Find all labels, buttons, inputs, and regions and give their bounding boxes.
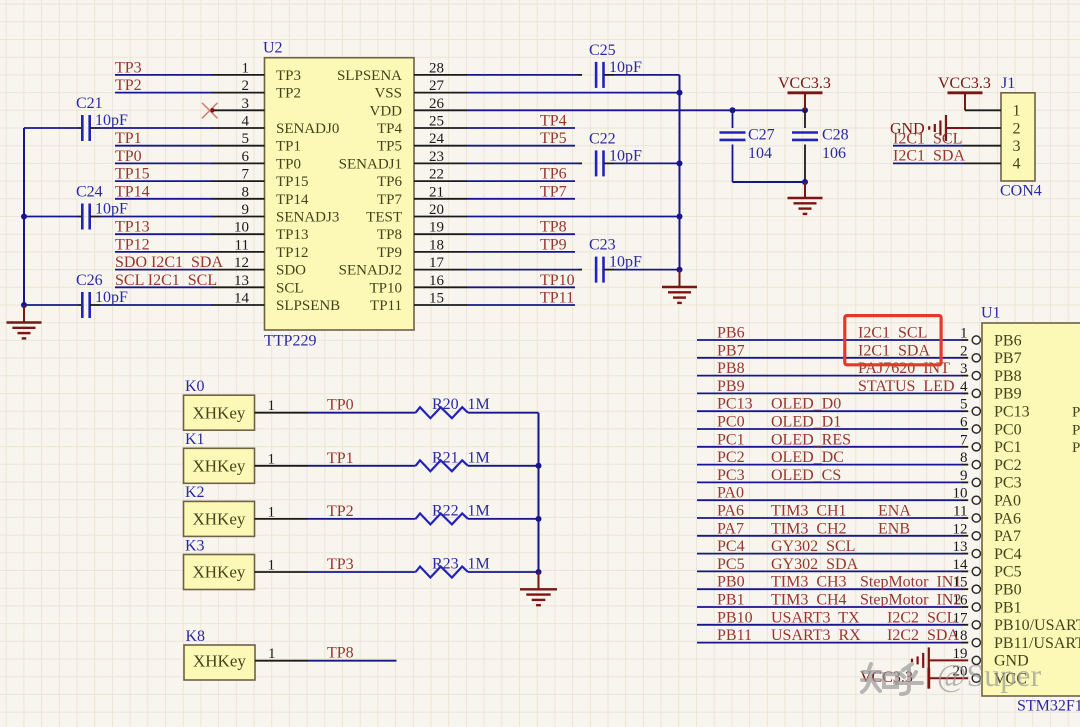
svg-text:P: P	[1072, 405, 1080, 421]
U2 pin 24 (right)	[414, 145, 467, 147]
wire net TP1	[308, 465, 416, 467]
svg-text:StepMotor IN2: StepMotor IN2	[860, 592, 961, 609]
wire net TP0	[308, 412, 416, 414]
resistor R23 1M	[416, 567, 468, 578]
svg-text:TP11: TP11	[370, 298, 402, 314]
svg-text:PA6: PA6	[717, 503, 744, 520]
svg-text:OLED_D1: OLED_D1	[771, 414, 841, 431]
svg-text:TP8: TP8	[540, 219, 567, 236]
K3 pin 1	[255, 571, 308, 573]
svg-text:1: 1	[268, 398, 276, 414]
svg-text:1M: 1M	[468, 502, 490, 519]
U2 pin 18 (right)	[414, 251, 467, 253]
capacitor C27 104	[732, 110, 734, 128]
svg-text:PC5: PC5	[994, 564, 1022, 581]
svg-text:25: 25	[429, 114, 444, 130]
svg-text:PC13: PC13	[717, 396, 753, 413]
svg-text:10: 10	[953, 486, 968, 502]
U2 pin 2 (left)	[212, 92, 265, 94]
svg-text:10pF: 10pF	[609, 59, 642, 76]
svg-text:PC4: PC4	[717, 538, 745, 555]
K1 pin 1	[255, 465, 308, 467]
U1 pin 2	[697, 357, 962, 359]
svg-text:TP8: TP8	[377, 227, 402, 243]
svg-text:P: P	[1072, 440, 1080, 456]
wire right vertical ground line	[679, 75, 681, 270]
svg-text:STM32F103C8: STM32F103C8	[1017, 697, 1080, 714]
svg-text:TIM3 CH2: TIM3 CH2	[771, 520, 847, 537]
svg-text:C25: C25	[589, 42, 616, 59]
resistor R22 1M	[416, 513, 468, 524]
svg-text:4: 4	[242, 114, 250, 130]
svg-text:19: 19	[429, 220, 444, 236]
svg-text:SCL: SCL	[276, 280, 304, 296]
svg-text:SENADJ3: SENADJ3	[276, 210, 339, 226]
U2 pin 3 (left)	[212, 109, 265, 111]
svg-text:PB1: PB1	[994, 599, 1022, 616]
wire VSS (pin27) to ground line	[467, 92, 680, 94]
wire net TP11 (right)	[467, 304, 575, 306]
svg-text:TP0: TP0	[115, 148, 142, 165]
svg-text:PB0: PB0	[717, 574, 745, 591]
U2 pin 13 (left)	[212, 286, 265, 288]
wire left ground bus	[23, 128, 25, 305]
svg-text:TP1: TP1	[115, 130, 142, 147]
capacitor C26 10pF	[24, 304, 78, 306]
capacitor C24 10pF	[24, 216, 78, 218]
wire VDD rail (pin26)	[467, 109, 805, 111]
wire resistor to bus	[468, 571, 539, 573]
svg-text:TIM3 CH4: TIM3 CH4	[771, 592, 847, 609]
svg-text:TP13: TP13	[115, 219, 150, 236]
U2 pin 25 (right)	[414, 127, 467, 129]
svg-text:TP3: TP3	[276, 68, 301, 84]
svg-text:OLED_RES: OLED_RES	[771, 431, 851, 448]
svg-text:10pF: 10pF	[95, 201, 128, 218]
svg-text:1M: 1M	[468, 396, 490, 413]
svg-text:TP3: TP3	[327, 556, 354, 573]
svg-text:PC1: PC1	[717, 431, 745, 448]
svg-text:I2C1 SDA: I2C1 SDA	[858, 342, 930, 359]
power GND (J1 pin2)	[970, 127, 1001, 129]
svg-text:PA7: PA7	[994, 528, 1021, 545]
capacitor C25 10pF	[467, 74, 578, 76]
wire net TP7 (right)	[467, 198, 575, 200]
svg-text:TTP229: TTP229	[264, 333, 316, 350]
svg-text:SDO: SDO	[276, 263, 306, 279]
svg-text:VSS: VSS	[374, 86, 402, 102]
wire net TP15 (U2 pin 7)	[115, 180, 213, 182]
svg-text:5: 5	[242, 131, 250, 147]
U2 pin 12 (left)	[212, 269, 265, 271]
svg-text:TP2: TP2	[115, 77, 142, 94]
ground (decoupling)	[804, 182, 806, 198]
K2 pin 1	[255, 518, 308, 520]
svg-text:TIM3 CH1: TIM3 CH1	[771, 503, 847, 520]
svg-text:PC0: PC0	[994, 421, 1022, 438]
svg-text:I2C2 SCL: I2C2 SCL	[887, 609, 956, 626]
svg-text:10pF: 10pF	[95, 112, 128, 129]
wire net TP0 (U2 pin 6)	[115, 162, 213, 164]
svg-text:PA0: PA0	[994, 493, 1021, 510]
svg-text:TP9: TP9	[540, 236, 567, 253]
svg-text:12: 12	[953, 521, 968, 537]
U2 pin 1 (left)	[212, 74, 265, 76]
svg-text:TP1: TP1	[276, 139, 301, 155]
svg-text:U1: U1	[981, 305, 1001, 322]
svg-text:TP12: TP12	[276, 245, 309, 261]
svg-text:2: 2	[242, 78, 250, 94]
svg-text:28: 28	[429, 60, 444, 76]
svg-text:27: 27	[429, 78, 445, 94]
no-ERC cross on pin 3	[202, 103, 218, 119]
U2 pin 23 (right)	[414, 162, 467, 164]
svg-text:XHKey: XHKey	[193, 651, 246, 670]
svg-text:R22: R22	[432, 502, 459, 519]
U2 pin 7 (left)	[212, 180, 265, 182]
svg-text:11: 11	[235, 237, 249, 253]
power VCC3.3 (U1 pin20)	[929, 677, 968, 679]
U2 pin 21 (right)	[414, 198, 467, 200]
watermark zhihu logo glyphs	[862, 664, 922, 694]
svg-text:GY302 SDA: GY302 SDA	[771, 556, 859, 573]
U2 pin 16 (right)	[414, 286, 467, 288]
wire net TP8	[308, 660, 397, 662]
svg-text:3: 3	[242, 96, 250, 112]
U2 pin 15 (right)	[414, 304, 467, 306]
svg-text:26: 26	[429, 96, 445, 112]
wire net TP12 (U2 pin 11)	[115, 251, 213, 253]
U2 pin 4 (left)	[212, 127, 265, 129]
svg-text:TP0: TP0	[327, 397, 354, 414]
svg-text:PA0: PA0	[717, 485, 744, 502]
svg-text:I2C2 SDA: I2C2 SDA	[887, 627, 959, 644]
K0 pin 1	[255, 412, 308, 414]
junction at C26	[21, 302, 27, 308]
svg-text:PB6: PB6	[717, 325, 745, 342]
U2 pin 5 (left)	[212, 145, 265, 147]
capacitor C23 10pF	[467, 269, 578, 271]
U2 pin 26 (right)	[414, 109, 467, 111]
svg-text:C22: C22	[589, 130, 616, 147]
svg-text:OLED_DC: OLED_DC	[771, 449, 844, 466]
wire TP2 net (pin2)	[115, 92, 213, 94]
svg-text:PA6: PA6	[994, 510, 1021, 527]
wire resistor to bus	[468, 465, 539, 467]
svg-text:PB9: PB9	[717, 378, 745, 395]
U1 pin 16	[697, 606, 962, 608]
svg-text:TP2: TP2	[276, 86, 301, 102]
svg-text:14: 14	[234, 291, 250, 307]
svg-text:SCL I2C1 SCL: SCL I2C1 SCL	[115, 272, 217, 289]
svg-text:XHKey: XHKey	[193, 403, 246, 422]
svg-text:1: 1	[268, 558, 276, 574]
svg-text:StepMotor IN1: StepMotor IN1	[860, 574, 961, 591]
svg-text:SENADJ0: SENADJ0	[276, 121, 339, 137]
svg-text:TP13: TP13	[276, 227, 309, 243]
svg-text:13: 13	[953, 539, 968, 555]
svg-text:VCC3.3: VCC3.3	[938, 75, 991, 92]
K8 pin 1	[255, 660, 308, 662]
svg-text:PAJ7620 INT: PAJ7620 INT	[858, 360, 950, 377]
svg-text:10pF: 10pF	[609, 147, 642, 164]
svg-text:TP7: TP7	[540, 183, 567, 200]
U2 pin 8 (left)	[212, 198, 265, 200]
svg-text:C21: C21	[76, 95, 103, 112]
svg-text:TP5: TP5	[377, 139, 402, 155]
U2 pin 14 (left)	[212, 304, 265, 306]
svg-text:XHKey: XHKey	[193, 563, 246, 582]
svg-text:18: 18	[429, 237, 444, 253]
svg-text:TP10: TP10	[369, 280, 402, 296]
svg-text:TP11: TP11	[540, 290, 574, 307]
svg-text:PC3: PC3	[717, 467, 745, 484]
wire net TP10 (right)	[467, 286, 575, 288]
wire net TP9 (right)	[467, 251, 575, 253]
svg-text:TP14: TP14	[276, 192, 309, 208]
U1 pin 4	[697, 392, 962, 394]
svg-text:7: 7	[242, 167, 250, 183]
wire net TP5 (right)	[467, 145, 575, 147]
resistor R21 1M	[416, 460, 468, 471]
svg-text:C28: C28	[822, 127, 849, 144]
svg-text:PB6: PB6	[994, 332, 1022, 349]
svg-text:10pF: 10pF	[95, 289, 128, 306]
wire resistor to bus	[468, 518, 539, 520]
svg-text:PB11: PB11	[717, 627, 752, 644]
U2 pin 28 (right)	[414, 74, 467, 76]
svg-text:ENA: ENA	[878, 503, 911, 520]
svg-text:I2C1 SDA: I2C1 SDA	[893, 147, 965, 164]
wire TP3 net (pin1)	[115, 74, 213, 76]
svg-text:14: 14	[953, 557, 969, 573]
wire net TP8 (right)	[467, 233, 575, 235]
svg-text:106: 106	[822, 145, 846, 162]
wire key ground bus	[538, 413, 540, 572]
svg-text:R21: R21	[432, 449, 459, 466]
svg-text:TP15: TP15	[115, 166, 150, 183]
wire I2C1 SCL (J1 pin3)	[893, 145, 964, 147]
svg-text:PC1: PC1	[994, 439, 1022, 456]
svg-text:1M: 1M	[468, 556, 490, 573]
svg-text:1: 1	[268, 451, 276, 467]
wire net TP6 (right)	[467, 180, 575, 182]
svg-text:TP6: TP6	[377, 174, 403, 190]
wire net TP4 (right)	[467, 127, 575, 129]
svg-text:1: 1	[268, 646, 276, 662]
svg-text:104: 104	[748, 145, 772, 162]
svg-text:TP10: TP10	[540, 272, 575, 289]
svg-text:TP4: TP4	[377, 121, 403, 137]
svg-text:4: 4	[960, 379, 968, 395]
svg-text:TIM3 CH3: TIM3 CH3	[771, 574, 847, 591]
key K3 XHKey	[184, 555, 255, 590]
U2 pin 20 (right)	[414, 216, 467, 218]
U2 pin 10 (left)	[212, 233, 265, 235]
U1 pin 17	[697, 624, 962, 626]
svg-text:17: 17	[429, 255, 445, 271]
annotation red box around I2C1 labels	[845, 316, 941, 365]
svg-text:TP5: TP5	[540, 130, 567, 147]
svg-text:23: 23	[429, 149, 444, 165]
svg-text:PB1: PB1	[717, 592, 745, 609]
svg-text:TP3: TP3	[115, 59, 142, 76]
svg-text:PB11/USART3: PB11/USART3	[994, 635, 1080, 652]
svg-text:8: 8	[242, 184, 250, 200]
svg-text:C24: C24	[76, 184, 103, 201]
svg-text:TP0: TP0	[276, 156, 301, 172]
svg-text:OLED_CS: OLED_CS	[771, 467, 841, 484]
svg-text:4: 4	[1013, 156, 1021, 173]
svg-text:6: 6	[242, 149, 250, 165]
svg-text:TP7: TP7	[377, 192, 403, 208]
svg-text:C26: C26	[76, 272, 103, 289]
U1 pin 5	[697, 410, 962, 412]
svg-text:I2C1 SCL: I2C1 SCL	[858, 325, 927, 342]
ground (right line)	[679, 270, 681, 287]
svg-text:10pF: 10pF	[609, 254, 642, 271]
key K8 XHKey	[184, 645, 255, 680]
svg-text:15: 15	[429, 291, 444, 307]
svg-text:9: 9	[242, 202, 250, 218]
svg-text:TEST: TEST	[366, 210, 402, 226]
junction bottom rail	[802, 179, 808, 185]
U2 pin 19 (right)	[414, 233, 467, 235]
svg-text:PC2: PC2	[717, 449, 745, 466]
U1 pin 11	[697, 517, 962, 519]
svg-text:U2: U2	[263, 40, 283, 57]
svg-text:3: 3	[1013, 138, 1021, 155]
key K0 XHKey	[184, 395, 255, 430]
ground (keys)	[538, 572, 540, 589]
svg-text:C23: C23	[589, 237, 616, 254]
junction	[536, 569, 542, 575]
ground (left bus)	[23, 305, 25, 322]
svg-text:TP6: TP6	[540, 166, 567, 183]
svg-text:10: 10	[234, 220, 249, 236]
connector J1 CON4 body	[1001, 93, 1035, 181]
svg-text:1: 1	[960, 326, 968, 342]
svg-text:K0: K0	[185, 378, 205, 395]
junction C28 top	[802, 107, 808, 113]
U2 pin 22 (right)	[414, 180, 467, 182]
svg-text:USART3 RX: USART3 RX	[771, 627, 861, 644]
svg-text:7: 7	[960, 432, 968, 448]
power GND (U1 pin19)	[929, 659, 968, 661]
svg-text:J1: J1	[1001, 75, 1015, 92]
U1 pin 18	[697, 642, 962, 644]
U1 pin 9	[697, 481, 962, 483]
svg-text:PB7: PB7	[994, 350, 1022, 367]
U2 pin 6 (left)	[212, 162, 265, 164]
svg-text:CON4: CON4	[1000, 183, 1042, 200]
wire net TP1 (U2 pin 5)	[115, 145, 213, 147]
svg-text:1: 1	[1013, 103, 1021, 120]
svg-text:21: 21	[429, 184, 444, 200]
svg-text:16: 16	[429, 273, 445, 289]
U1 pin 3	[697, 375, 962, 377]
U1 pin 13	[697, 553, 962, 555]
key K2 XHKey	[184, 501, 255, 536]
svg-text:11: 11	[953, 504, 967, 520]
svg-text:XHKey: XHKey	[193, 456, 246, 475]
junction	[536, 516, 542, 522]
svg-text:PC0: PC0	[717, 414, 745, 431]
svg-text:PC5: PC5	[717, 556, 745, 573]
svg-text:@Super: @Super	[937, 657, 1041, 693]
svg-text:R23: R23	[432, 556, 459, 573]
svg-text:TP12: TP12	[115, 236, 150, 253]
svg-text:22: 22	[429, 167, 444, 183]
U1 pin 10	[697, 499, 962, 501]
svg-text:GY302 SCL: GY302 SCL	[771, 538, 855, 555]
svg-text:PB8: PB8	[994, 368, 1022, 385]
svg-text:PB9: PB9	[994, 386, 1022, 403]
svg-text:24: 24	[429, 131, 445, 147]
U1 pin 6	[697, 428, 962, 430]
svg-text:VDD: VDD	[370, 103, 403, 119]
wire net TP13 (U2 pin 10)	[115, 233, 213, 235]
wire C27/C28 bottom rail	[733, 181, 806, 183]
svg-text:SENADJ2: SENADJ2	[339, 263, 402, 279]
capacitor C22 10pF	[467, 162, 578, 164]
svg-text:SLPSENA: SLPSENA	[337, 68, 402, 84]
U1 pin 7	[697, 446, 962, 448]
wire I2C1 SDA (J1 pin4)	[893, 162, 964, 164]
svg-text:OLED_D0: OLED_D0	[771, 396, 841, 413]
U2 pin 27 (right)	[414, 92, 467, 94]
junction C27 top	[730, 107, 736, 113]
svg-text:XHKey: XHKey	[193, 510, 246, 529]
U1 pin 8	[697, 464, 962, 466]
svg-text:K3: K3	[185, 537, 205, 554]
svg-text:TP9: TP9	[377, 245, 402, 261]
svg-text:PA7: PA7	[717, 520, 744, 537]
svg-text:C27: C27	[748, 127, 775, 144]
svg-text:VCC3.3: VCC3.3	[778, 75, 831, 92]
svg-text:TP15: TP15	[276, 174, 309, 190]
svg-text:P: P	[1072, 422, 1080, 438]
svg-text:2: 2	[960, 343, 968, 359]
svg-text:SENADJ1: SENADJ1	[339, 156, 402, 172]
svg-text:12: 12	[234, 255, 249, 271]
svg-text:PB7: PB7	[717, 342, 745, 359]
U2 pin 9 (left)	[212, 216, 265, 218]
svg-text:I2C1 SCL: I2C1 SCL	[893, 131, 962, 148]
svg-text:PB10: PB10	[717, 609, 753, 626]
svg-text:6: 6	[960, 415, 968, 431]
svg-text:20: 20	[429, 202, 444, 218]
svg-text:3: 3	[960, 361, 968, 377]
svg-text:STATUS LED: STATUS LED	[858, 378, 955, 395]
wire net SCL (U2 pin 13)	[115, 286, 213, 288]
svg-text:K8: K8	[186, 628, 206, 645]
svg-text:SDO I2C1 SDA: SDO I2C1 SDA	[115, 254, 223, 271]
svg-text:USART3 TX: USART3 TX	[771, 609, 860, 626]
svg-text:PC3: PC3	[994, 475, 1022, 492]
svg-text:PB8: PB8	[717, 360, 745, 377]
svg-text:PC4: PC4	[994, 546, 1022, 563]
U1 pin 1	[697, 339, 962, 341]
power VCC3.3 (rail)	[804, 94, 806, 111]
svg-text:9: 9	[960, 468, 968, 484]
capacitor C28 106	[804, 110, 806, 128]
U2 pin 17 (right)	[414, 269, 467, 271]
MCU U1 STM32F103 body	[982, 323, 1080, 696]
svg-text:1: 1	[268, 504, 276, 520]
svg-text:TP14: TP14	[115, 183, 150, 200]
resistor R20 1M	[416, 407, 468, 418]
